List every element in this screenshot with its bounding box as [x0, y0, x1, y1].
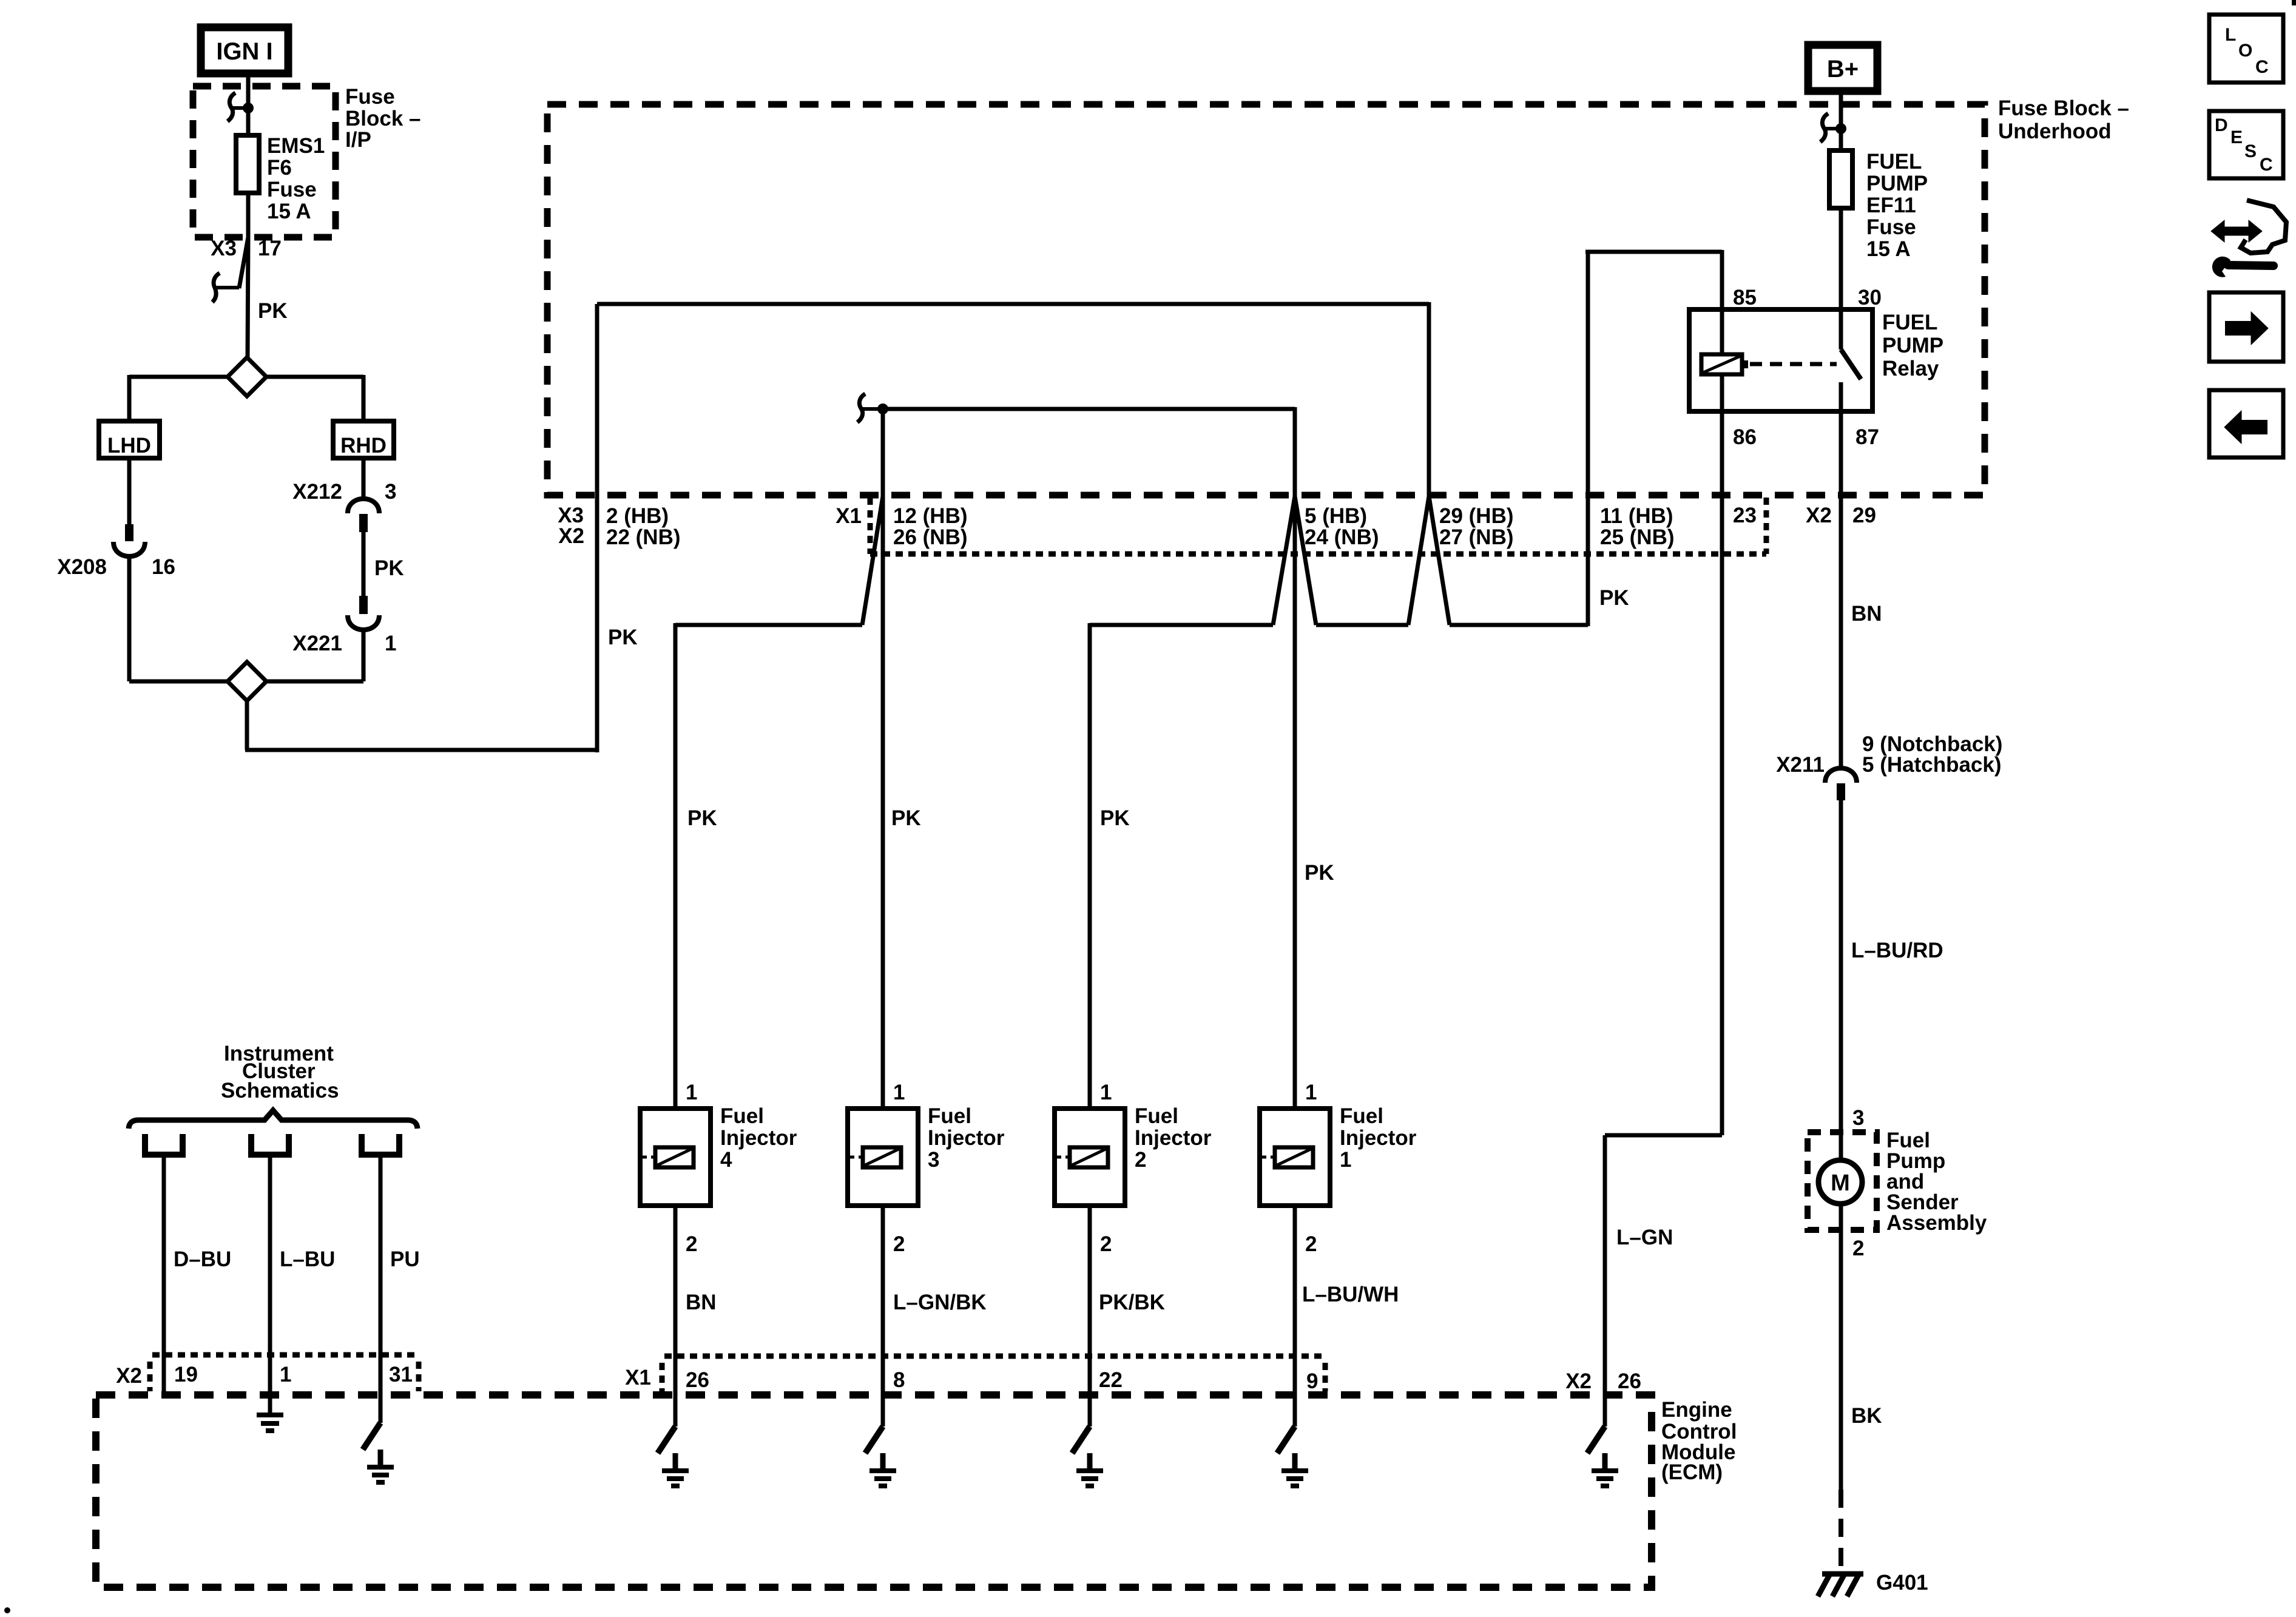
wire L-BU to ECM X2-1	[270, 1155, 335, 1415]
svg-text:31: 31	[389, 1363, 413, 1386]
page corner mark	[2292, 0, 2296, 5]
svg-text:PK: PK	[1305, 861, 1334, 885]
wire L-GN relay pin 86 to ECM X2-26	[1605, 411, 1722, 1395]
svg-text:3: 3	[928, 1148, 939, 1172]
fuel pump pin 2 label	[1852, 1237, 1864, 1260]
wire PU to ECM X2-31	[380, 1155, 420, 1423]
ECM connector X1 label	[625, 1366, 651, 1389]
wire color label L-BU/WH	[1302, 1283, 1399, 1306]
svg-text:Injector: Injector	[720, 1126, 797, 1150]
ECM pin label 26	[686, 1368, 709, 1392]
svg-text:RHD: RHD	[340, 434, 387, 457]
svg-text:X212: X212	[292, 480, 342, 504]
svg-text:Injector: Injector	[1340, 1126, 1417, 1150]
svg-text:LHD: LHD	[107, 434, 151, 457]
relay pin label 85	[1733, 286, 1757, 309]
label Fuel Injector 3	[928, 1104, 1005, 1172]
ECM connector X1 dotted boundary	[662, 1356, 1325, 1391]
brace instrument cluster	[129, 1110, 417, 1129]
wire PK between X212 and X221	[363, 532, 404, 597]
wire bus segment	[1316, 623, 1408, 627]
svg-text:BN: BN	[686, 1291, 717, 1314]
ECM driver switch and ground for PU wire	[363, 1423, 394, 1482]
svg-text:11 (HB): 11 (HB)	[1600, 504, 1673, 528]
svg-text:G401: G401	[1876, 1571, 1928, 1595]
ECM driver switch and ground for injector 2	[1072, 1395, 1103, 1486]
svg-text:PU: PU	[390, 1247, 420, 1271]
wire fuel injector 1 to ECM	[1293, 1206, 1297, 1395]
fuse EF11 FUEL PUMP 15 A	[1829, 150, 1852, 208]
wire fuel injector 3 to ECM	[881, 1206, 885, 1395]
svg-text:26: 26	[686, 1368, 709, 1392]
svg-text:1: 1	[385, 632, 396, 655]
fuel injector 3 box	[848, 1109, 918, 1206]
wire fuse EF11 to relay pin 30	[1839, 208, 1843, 311]
svg-text:29: 29	[1852, 504, 1876, 527]
svg-text:Schematics: Schematics	[221, 1079, 339, 1102]
svg-text:26 (NB): 26 (NB)	[893, 525, 968, 549]
label FUEL PUMP EF11 Fuse 15 A	[1866, 150, 1928, 261]
svg-text:Assembly: Assembly	[1886, 1211, 1987, 1235]
connector label X2 pin 29	[1806, 504, 1876, 527]
icon forward arrow box	[2209, 292, 2283, 362]
svg-text:PK/BK: PK/BK	[1099, 1291, 1165, 1314]
icon service tools (arrows and wrench)	[2211, 200, 2286, 277]
icon DESC box	[2209, 111, 2283, 178]
wire fuse EMS1 to connector X3	[246, 193, 251, 237]
label Fuel Injector 4	[720, 1104, 797, 1172]
svg-text:Fuse: Fuse	[345, 85, 395, 109]
svg-text:L–GN/BK: L–GN/BK	[893, 1291, 987, 1314]
svg-text:PUMP: PUMP	[1882, 334, 1943, 357]
wire L-BU/RD X211 to fuel pump	[1841, 800, 1943, 1132]
terminal to instrument cluster at x=627	[362, 1134, 399, 1155]
wire PK injector 4 branch	[675, 623, 862, 1109]
connector X212 pin 3	[292, 480, 396, 532]
label Fuel Injector 2	[1135, 1104, 1212, 1172]
svg-text:26: 26	[1618, 1369, 1641, 1393]
svg-text:Fuse: Fuse	[267, 178, 317, 201]
wire PK injector 2 branch	[1090, 623, 1273, 1109]
svg-text:X221: X221	[292, 632, 342, 655]
label Fuse Block - Underhood	[1998, 96, 2129, 143]
icon back arrow box	[2209, 390, 2283, 457]
svg-text:24 (NB): 24 (NB)	[1305, 525, 1379, 549]
fuel injector 2 pin 1 label	[1100, 1081, 1112, 1104]
svg-text:29 (HB): 29 (HB)	[1439, 504, 1514, 528]
svg-text:Injector: Injector	[928, 1126, 1005, 1150]
wire dogleg at connector 5(HB)/24(NB)	[1273, 496, 1316, 625]
svg-text:85: 85	[1733, 286, 1757, 309]
fuel injector 1 pin 1 label	[1305, 1081, 1317, 1104]
svg-text:X2: X2	[1565, 1369, 1592, 1393]
fuel injector 4 box	[640, 1109, 711, 1206]
fuel injector 4 pin 1 label	[686, 1081, 697, 1104]
svg-text:5 (Hatchback): 5 (Hatchback)	[1862, 753, 2002, 777]
connector pin label 5 (HB) 24 (NB)	[1305, 504, 1379, 549]
svg-text:8: 8	[893, 1368, 905, 1392]
wire D-BU to ECM X2-19	[164, 1155, 231, 1393]
page bottom dot	[4, 1607, 10, 1613]
ECM driver switch and ground for injector 1	[1277, 1395, 1308, 1486]
wire BK fuel pump to ground	[1841, 1230, 1882, 1490]
svg-text:30: 30	[1858, 286, 1882, 309]
svg-text:86: 86	[1733, 425, 1757, 449]
wire B+ to fuse EF11	[1839, 91, 1843, 150]
label FUEL PUMP Relay	[1882, 311, 1943, 380]
svg-text:IGN I: IGN I	[216, 38, 272, 65]
wire slant at connector X1-12	[862, 496, 883, 625]
ECM internal ground for L-BU	[257, 1415, 283, 1431]
svg-text:O: O	[2238, 41, 2252, 61]
svg-text:PK: PK	[374, 556, 404, 580]
svg-text:2: 2	[1135, 1148, 1146, 1172]
wire relay coil feed 85	[1585, 250, 1722, 626]
svg-text:PK: PK	[1100, 806, 1130, 830]
wire dogleg at connector 29(HB)/27(NB)	[1408, 496, 1450, 625]
svg-text:15 A: 15 A	[1866, 237, 1911, 261]
wire PK lower splice to fuse block X3-2	[245, 304, 638, 752]
relay coil wire pin 85 to 86	[1720, 309, 1724, 411]
svg-text:(ECM): (ECM)	[1661, 1460, 1723, 1484]
label Fuse Block - I/P	[345, 85, 421, 152]
svg-text:23: 23	[1733, 504, 1757, 527]
ECM driver switch and ground for fuel pump relay	[1587, 1395, 1618, 1486]
svg-text:Injector: Injector	[1135, 1126, 1212, 1150]
svg-text:D–BU: D–BU	[174, 1247, 231, 1271]
svg-text:1: 1	[1340, 1148, 1351, 1172]
svg-text:2: 2	[1100, 1232, 1112, 1256]
svg-text:25 (NB): 25 (NB)	[1600, 525, 1675, 549]
svg-text:PK: PK	[258, 299, 288, 323]
power terminal B+	[1808, 45, 1877, 91]
ECM connector X2 label	[116, 1364, 142, 1388]
svg-text:BK: BK	[1851, 1404, 1882, 1428]
wire X208 to lower splice	[127, 556, 132, 681]
terminal to instrument cluster at x=270	[145, 1134, 183, 1155]
power terminal IGN I	[201, 27, 288, 73]
svg-text:X211: X211	[1776, 753, 1825, 777]
label Engine Control Module (ECM)	[1661, 1398, 1737, 1484]
connector hook and junction dot inside I/P fuse block	[228, 93, 254, 121]
ECM pin label 19	[174, 1363, 198, 1386]
svg-text:S: S	[2244, 141, 2257, 161]
svg-text:X3: X3	[211, 237, 237, 260]
svg-text:22: 22	[1099, 1368, 1123, 1392]
relay FUEL PUMP Relay box	[1689, 309, 1872, 411]
fuel injector 1 pin 2 label	[1305, 1232, 1317, 1256]
label EMS1 F6 Fuse 15 A	[267, 134, 325, 223]
svg-text:2: 2	[686, 1232, 697, 1256]
connector X3 pin 17	[211, 237, 282, 302]
svg-text:22 (NB): 22 (NB)	[606, 525, 681, 549]
svg-text:X2: X2	[1806, 504, 1832, 527]
ECM driver switch and ground for injector 4	[658, 1395, 689, 1486]
relay coil	[1701, 354, 1748, 374]
ECM pin label 9	[1306, 1369, 1318, 1393]
relay switch pin 30 to 87	[1841, 309, 1861, 411]
svg-text:C: C	[2255, 57, 2269, 77]
fuel injector 3 pin 2 label	[893, 1232, 905, 1256]
svg-text:1: 1	[280, 1363, 291, 1386]
connector X221 pin 1	[292, 596, 396, 655]
relay pin label 86	[1733, 425, 1757, 449]
bus wire ignition feed inside fuse block	[597, 302, 1429, 496]
wire PK injector 3 column	[883, 409, 921, 1109]
wire X221 to lower splice	[362, 629, 366, 681]
ECM pin label 31	[389, 1363, 413, 1386]
connector X1 dotted boundary	[870, 498, 1766, 554]
svg-text:Fuel: Fuel	[1340, 1104, 1383, 1128]
relay pin label 87	[1855, 425, 1879, 449]
svg-text:E: E	[2230, 127, 2243, 147]
fuel injector 3 pin 1 label	[893, 1081, 905, 1104]
svg-text:X2: X2	[558, 524, 584, 548]
svg-text:Underhood: Underhood	[1998, 120, 2112, 143]
fuel pump motor M	[1818, 1132, 1862, 1230]
svg-text:15 A: 15 A	[267, 200, 311, 223]
wire BK dashed segment to G401	[1838, 1490, 1843, 1573]
label Fuel Pump and Sender Assembly	[1886, 1129, 1987, 1235]
terminal to instrument cluster at x=445	[251, 1134, 289, 1155]
wire splice to RHD	[266, 375, 363, 421]
svg-text:I/P: I/P	[345, 128, 371, 152]
svg-text:L–BU: L–BU	[280, 1247, 335, 1271]
svg-text:X2: X2	[116, 1364, 142, 1388]
splice diamond lower	[129, 662, 363, 701]
svg-text:2: 2	[1305, 1232, 1317, 1256]
ground G401	[1818, 1571, 1928, 1596]
svg-text:5 (HB): 5 (HB)	[1305, 504, 1367, 528]
svg-text:PK: PK	[608, 626, 638, 649]
svg-text:1: 1	[1100, 1081, 1112, 1104]
svg-text:PK: PK	[687, 806, 717, 830]
wire color label PK/BK	[1099, 1291, 1165, 1314]
svg-text:Fuse: Fuse	[1866, 215, 1916, 239]
svg-text:L: L	[2225, 25, 2236, 45]
wire RHD down to connector X212	[362, 458, 366, 499]
svg-text:Fuse Block –: Fuse Block –	[1998, 96, 2129, 120]
fuel injector 2 pin 2 label	[1100, 1232, 1112, 1256]
svg-text:BN: BN	[1851, 602, 1882, 626]
ECM pin label 8	[893, 1368, 905, 1392]
svg-text:2 (HB): 2 (HB)	[606, 504, 669, 528]
fuel pump pin 3 label	[1852, 1106, 1864, 1130]
svg-text:3: 3	[385, 480, 396, 504]
svg-text:Block –: Block –	[345, 107, 421, 130]
svg-text:EMS1: EMS1	[267, 134, 325, 158]
svg-text:4: 4	[720, 1148, 732, 1172]
svg-text:87: 87	[1855, 425, 1879, 449]
connector hook and junction dot at B+ feed	[1820, 113, 1846, 142]
relay pin label 30	[1858, 286, 1882, 309]
ECM connector X2 dotted boundary (instrument cluster side)	[150, 1355, 419, 1391]
svg-text:12 (HB): 12 (HB)	[893, 504, 968, 528]
svg-text:X1: X1	[625, 1366, 651, 1389]
splice diamond upper	[228, 357, 266, 396]
label Instrument Cluster Schematics	[221, 1042, 339, 1102]
icon LOC box	[2209, 15, 2283, 83]
svg-text:B+: B+	[1827, 56, 1859, 83]
wire color label L-GN/BK	[893, 1291, 987, 1314]
relay coil-to-switch dashed link	[1750, 362, 1837, 366]
svg-text:F6: F6	[267, 156, 292, 180]
svg-text:Engine: Engine	[1661, 1398, 1732, 1422]
fuse block I/P dashed box	[193, 86, 336, 237]
ECM pin label 22	[1099, 1368, 1123, 1392]
connector X208 pin 16	[57, 524, 175, 579]
svg-text:C: C	[2260, 155, 2273, 175]
svg-text:2: 2	[893, 1232, 905, 1256]
fuel injector 1 box	[1260, 1109, 1330, 1206]
svg-text:L–BU/RD: L–BU/RD	[1851, 939, 1943, 962]
junction dot with hook on injector feed	[857, 394, 888, 422]
wire bus segment to relay feed	[1450, 586, 1629, 625]
wire LHD down to connector X208	[127, 458, 132, 525]
ECM connector label X2 pin 26	[1565, 1369, 1641, 1393]
connector pin label 23	[1733, 504, 1757, 527]
svg-text:M: M	[1831, 1170, 1850, 1196]
connector pin label 29 (HB) 27 (NB)	[1439, 504, 1514, 549]
fuse block underhood dashed box	[547, 104, 1985, 495]
svg-text:1: 1	[1305, 1081, 1317, 1104]
engine control module dashed box	[96, 1395, 1652, 1587]
wire PK injector 1 column	[1295, 496, 1334, 1109]
svg-text:Relay: Relay	[1882, 357, 1939, 380]
connector X211 pin 9/5	[1776, 732, 2002, 800]
svg-text:3: 3	[1852, 1106, 1864, 1130]
svg-text:2: 2	[1852, 1237, 1864, 1260]
svg-text:27 (NB): 27 (NB)	[1439, 525, 1514, 549]
ECM driver switch and ground for injector 3	[865, 1395, 896, 1486]
svg-text:Fuel: Fuel	[928, 1104, 971, 1128]
label Fuel Injector 1	[1340, 1104, 1417, 1172]
svg-text:17: 17	[258, 237, 282, 260]
svg-text:D: D	[2215, 115, 2228, 135]
wire fuel injector 2 to ECM	[1088, 1206, 1092, 1395]
svg-text:Fuel: Fuel	[1135, 1104, 1178, 1128]
wire splice to LHD	[129, 375, 228, 421]
svg-text:19: 19	[174, 1363, 198, 1386]
fuse EMS1 F6 15 A	[236, 135, 259, 193]
svg-text:PK: PK	[891, 806, 921, 830]
wire fuel injector 4 to ECM	[674, 1206, 678, 1395]
svg-text:16: 16	[152, 555, 175, 579]
RHD box	[333, 421, 394, 458]
connector pin label 11 (HB) 25 (NB)	[1600, 504, 1675, 549]
svg-text:Fuel: Fuel	[720, 1104, 764, 1128]
svg-text:FUEL: FUEL	[1882, 311, 1937, 334]
svg-text:X1: X1	[836, 504, 862, 528]
wire injector feed bus to injector 1 column	[883, 407, 1295, 496]
svg-text:L–BU/WH: L–BU/WH	[1302, 1283, 1399, 1306]
wire PK from X3-17 to splice	[248, 237, 288, 357]
ECM pin label 1	[280, 1363, 291, 1386]
wire color label BN	[686, 1291, 717, 1314]
svg-text:EF11: EF11	[1866, 194, 1916, 217]
connector label X3/X2 with pins 2 (HB) 22 (NB)	[558, 504, 680, 549]
fuel injector 2 box	[1055, 1109, 1125, 1206]
svg-text:PUMP: PUMP	[1866, 172, 1928, 195]
fuel injector 4 pin 2 label	[686, 1232, 697, 1256]
svg-text:1: 1	[893, 1081, 905, 1104]
fuel pump and sender assembly dashed box	[1808, 1132, 1877, 1230]
wire BN relay pin 87 to X211	[1841, 411, 1882, 768]
svg-text:9: 9	[1306, 1369, 1318, 1393]
svg-text:FUEL: FUEL	[1866, 150, 1922, 174]
connector label X1 pins 12 (HB) 26 (NB)	[836, 504, 967, 549]
svg-text:1: 1	[686, 1081, 697, 1104]
svg-text:X208: X208	[57, 555, 107, 579]
svg-text:L–GN: L–GN	[1616, 1226, 1673, 1249]
LHD box	[99, 421, 160, 458]
wire IGN I to fuse EMS1	[246, 73, 251, 135]
svg-text:PK: PK	[1599, 586, 1629, 610]
